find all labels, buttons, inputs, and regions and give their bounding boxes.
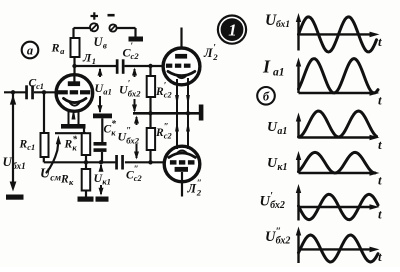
svg-text:U: U [267, 156, 278, 171]
svg-text:см: см [50, 172, 61, 183]
svg-text:R: R [155, 86, 164, 98]
svg-text:а: а [60, 46, 65, 56]
svg-text:U: U [3, 154, 13, 169]
svg-text:к: к [111, 128, 116, 137]
svg-text:t: t [378, 207, 382, 222]
svg-text:с2: с2 [164, 132, 172, 141]
svg-text:с2: с2 [164, 91, 172, 100]
svg-text:″: ″ [164, 122, 169, 132]
svg-text:″: ″ [126, 126, 131, 136]
svg-text:t: t [378, 93, 382, 108]
svg-text:″: ″ [197, 179, 202, 189]
svg-text:U: U [267, 120, 278, 135]
svg-text:I: I [262, 57, 271, 77]
svg-text:Л: Л [187, 182, 197, 196]
svg-text:R: R [19, 139, 28, 151]
svg-text:с2: с2 [134, 174, 142, 183]
svg-text:в: в [103, 41, 107, 51]
svg-text:к1: к1 [102, 177, 111, 187]
svg-text:с1: с1 [27, 143, 35, 152]
svg-text:*: * [72, 134, 77, 145]
svg-text:а1: а1 [277, 126, 287, 137]
svg-text:бх2: бх2 [128, 88, 141, 98]
svg-text:t: t [378, 249, 382, 264]
svg-text:R: R [155, 127, 164, 139]
svg-text:бх2: бх2 [126, 135, 139, 145]
svg-text:R: R [60, 174, 69, 186]
svg-text:1: 1 [92, 56, 96, 66]
svg-text:R: R [64, 139, 73, 151]
svg-text:б: б [263, 90, 270, 104]
svg-text:а1: а1 [273, 67, 285, 79]
svg-text:t: t [378, 137, 382, 152]
svg-text:′: ′ [213, 44, 216, 54]
svg-text:″: ″ [134, 164, 139, 174]
svg-text:*: * [111, 119, 116, 130]
svg-text:а1: а1 [103, 87, 112, 97]
svg-text:″: ″ [276, 227, 282, 238]
svg-text:C: C [126, 170, 134, 182]
svg-text:с2: с2 [131, 51, 140, 61]
svg-text:R: R [51, 41, 60, 55]
svg-text:бх1: бх1 [12, 161, 26, 171]
svg-text:1: 1 [228, 21, 237, 40]
svg-text:к1: к1 [277, 162, 287, 173]
svg-text:бх1: бх1 [276, 19, 290, 30]
svg-text:Л: Л [203, 46, 213, 60]
svg-text:с1: с1 [36, 82, 44, 91]
svg-text:к: к [72, 144, 77, 153]
svg-text:′: ′ [270, 191, 273, 202]
svg-text:t: t [378, 34, 382, 49]
svg-text:Л: Л [82, 51, 92, 65]
svg-text:а: а [27, 44, 33, 58]
svg-text:t: t [378, 173, 382, 188]
